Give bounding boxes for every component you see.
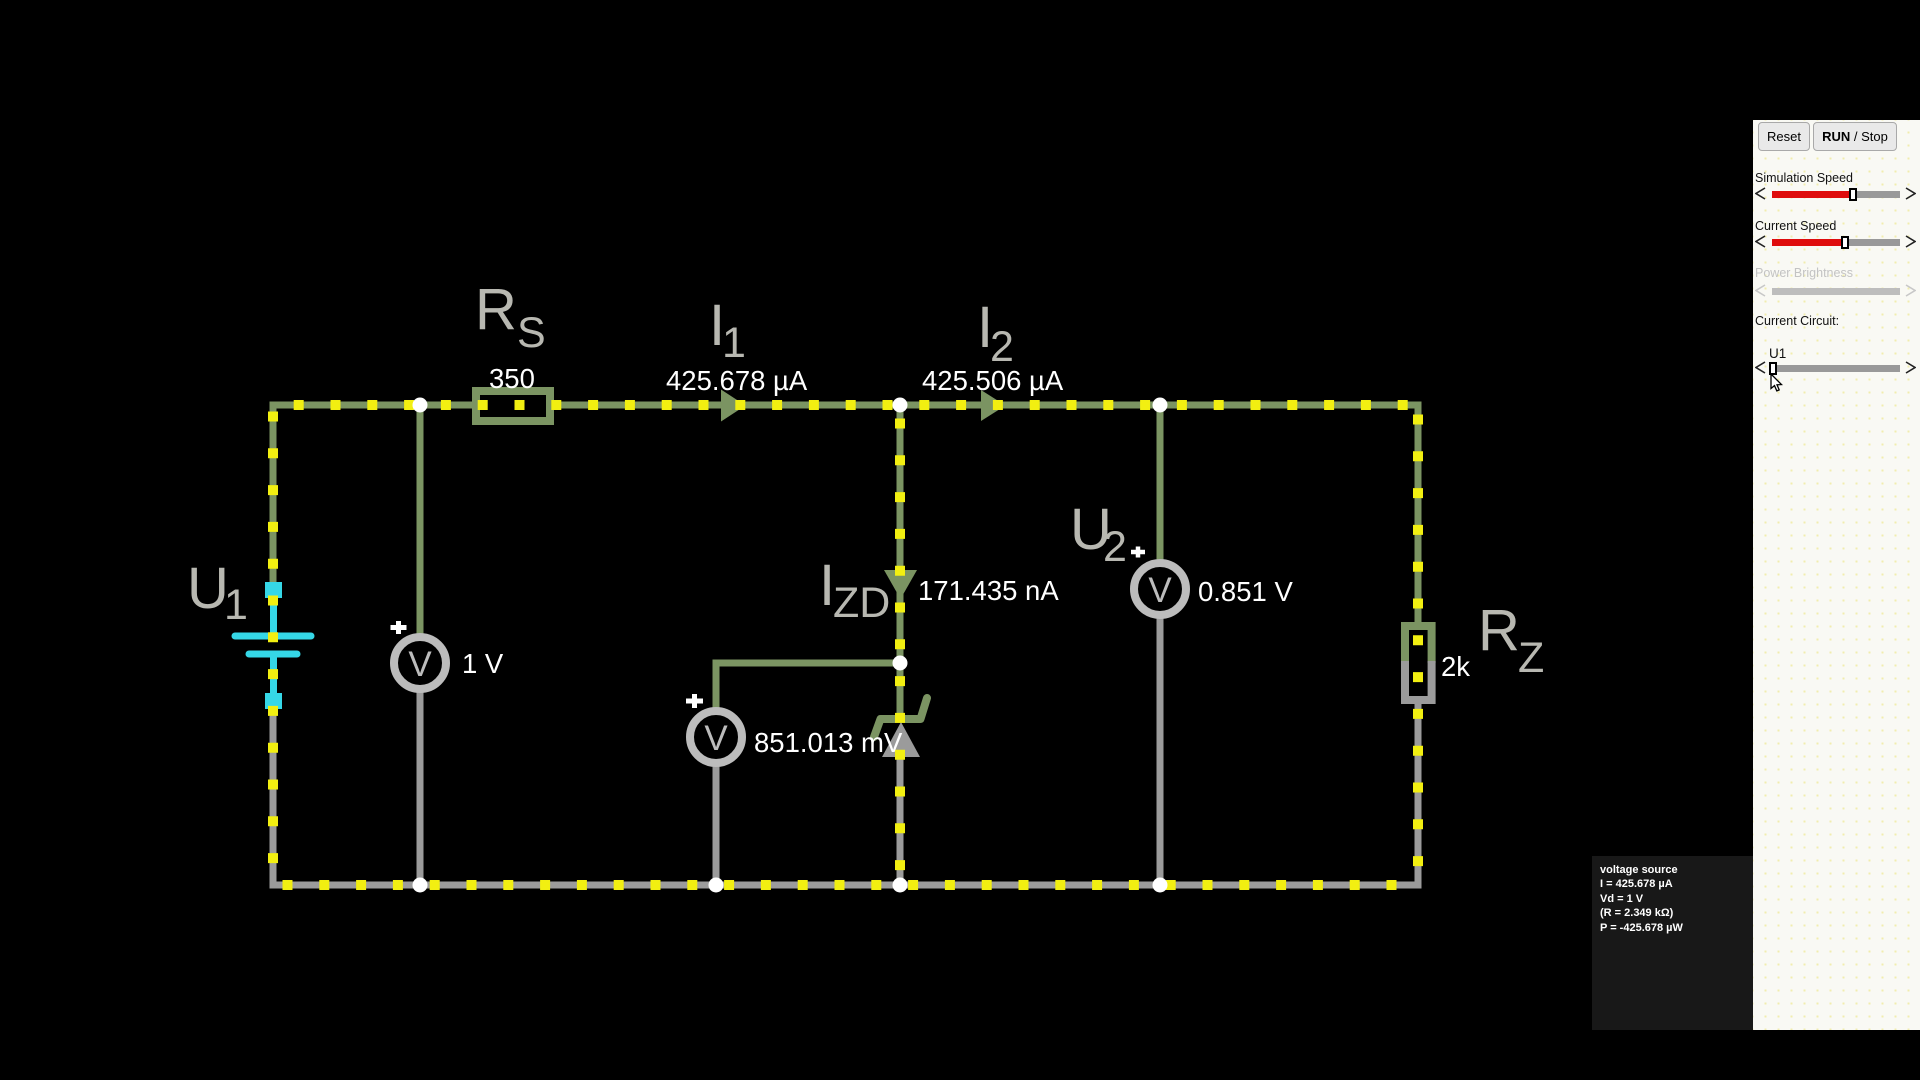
zener diode cathode bar with bent wings (green) <box>874 698 927 737</box>
wire: zener branch bottom <box>897 755 904 888</box>
current dots: left branch through battery <box>268 405 278 885</box>
svg-text:425.678 µA: 425.678 µA <box>666 365 808 396</box>
wire: V1 voltmeter bottom lead <box>417 691 424 888</box>
wire: V3 voltmeter sense wire from zener node <box>716 663 900 709</box>
svg-text:171.435 nA: 171.435 nA <box>918 575 1059 606</box>
svg-text:2: 2 <box>1103 523 1127 571</box>
wire: U2 voltmeter top lead <box>1157 402 1164 561</box>
info box: voltage source readout <box>1592 856 1753 1030</box>
voltmeter V1 plus sign <box>391 621 407 634</box>
node junction 4 <box>893 656 908 671</box>
battery U1 selection handle bottom <box>265 693 282 709</box>
current dots: zener branch <box>895 405 905 885</box>
wire: zener branch top <box>897 402 904 719</box>
svg-text:V: V <box>1148 571 1172 610</box>
svg-text:R: R <box>1478 598 1520 663</box>
Simulation Speed label <box>1755 171 1853 185</box>
Power Brightness slider (disabled) <box>1755 284 1766 297</box>
voltmeter V3 circle <box>690 711 742 763</box>
svg-text:2k: 2k <box>1441 651 1470 682</box>
node junction 8 <box>1153 878 1168 893</box>
voltmeter V3 plus sign <box>686 694 703 708</box>
node junction 7 <box>893 878 908 893</box>
svg-text:Z: Z <box>1518 634 1544 682</box>
mouse cursor <box>1770 374 1786 394</box>
wire: bottom ground net <box>273 702 1418 885</box>
battery U1 top plate <box>235 633 311 640</box>
U1 circuit name <box>1769 346 1786 361</box>
svg-text:1 V: 1 V <box>462 648 504 679</box>
svg-text:V: V <box>704 719 728 758</box>
Current Speed slider <box>1755 235 1766 248</box>
svg-text:2: 2 <box>990 323 1014 371</box>
voltmeter V1 circle <box>394 637 446 689</box>
wire: U2 voltmeter bottom lead <box>1157 617 1164 888</box>
wire: V3 voltmeter bottom lead <box>713 765 720 888</box>
voltmeter U2meter circle <box>1134 563 1186 615</box>
resistor RZ (box, top half green / bottom half gray) <box>1405 626 1432 663</box>
svg-text:851.013 mV: 851.013 mV <box>754 727 903 758</box>
svg-text:1: 1 <box>722 319 746 367</box>
wire: top net (battery + to RS to node A to RZ top) <box>273 405 1418 628</box>
current arrow IZD (down) <box>884 570 917 599</box>
wire: V1 voltmeter top lead <box>417 402 424 635</box>
Reset button <box>1758 122 1810 151</box>
current dots: bottom wire <box>273 880 1418 890</box>
Current Circuit label <box>1755 314 1839 328</box>
svg-text:1: 1 <box>224 581 248 629</box>
current arrow I2 <box>981 390 1006 421</box>
Simulation Speed slider <box>1755 187 1766 200</box>
node junction 1 <box>413 398 428 413</box>
battery U1 (selected, cyan) top lead <box>270 596 277 633</box>
svg-text:R: R <box>475 277 517 342</box>
svg-text:350: 350 <box>489 363 535 394</box>
node junction 2 <box>893 398 908 413</box>
svg-text:ZD: ZD <box>833 579 890 627</box>
svg-text:0.851 V: 0.851 V <box>1198 576 1293 607</box>
current arrow I1 <box>721 390 746 422</box>
battery U1 bottom plate <box>249 651 297 658</box>
svg-text:U: U <box>187 556 229 621</box>
resistor RS (box) <box>476 391 550 421</box>
node junction 6 <box>709 878 724 893</box>
battery U1 bottom lead <box>270 657 277 695</box>
Current Speed label <box>1755 219 1836 233</box>
node junction 3 <box>1153 398 1168 413</box>
RUN / Stop button <box>1813 122 1897 151</box>
current dots: right branch through RZ <box>1413 405 1423 885</box>
battery U1 selection handle top <box>265 582 282 598</box>
Power Brightness label (disabled) <box>1755 266 1853 280</box>
Current Circuit slider <box>1755 361 1766 374</box>
zener diode anode triangle (gray) <box>882 722 920 757</box>
svg-text:S: S <box>517 309 546 357</box>
voltmeter U2 plus sign <box>1131 547 1145 558</box>
svg-text:V: V <box>408 645 432 684</box>
node junction 5 <box>413 878 428 893</box>
control panel (right sidebar) <box>1753 120 1920 1030</box>
svg-text:425.506 µA: 425.506 µA <box>922 365 1064 396</box>
current dots: top wire <box>273 400 1418 410</box>
